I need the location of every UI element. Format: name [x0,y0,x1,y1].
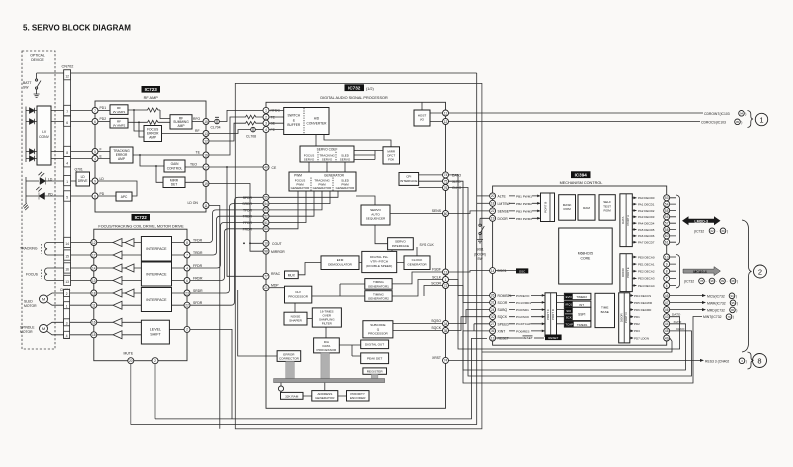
wire XRST / RES3 [449,359,701,361]
svg-text:PD1: PD1 [634,315,640,319]
svg-text:11: 11 [204,204,208,208]
svg-text:): ) [736,308,737,312]
wires CN702 to IC723 [71,111,93,197]
svg-text:19: 19 [204,182,208,186]
svg-text:XLTO: XLTO [674,320,682,324]
wire DATO wrap [449,175,680,349]
svg-text:TRACKING: TRACKING [20,247,38,251]
svg-text:TFDR: TFDR [193,239,203,243]
svg-text:35: 35 [444,329,448,333]
svg-text:MIRROR: MIRROR [271,250,285,254]
svg-text:12: 12 [204,139,208,143]
wire ALTE [477,195,490,197]
svg-text:I/V AMP2: I/V AMP2 [113,123,126,127]
block INTERFACE 3 [141,288,171,312]
svg-text:DIGITAL PLL: DIGITAL PLL [370,255,388,259]
arrowheads PB rows [537,195,540,220]
svg-text:24: 24 [491,308,495,312]
port DOOR PORT E box [620,254,632,292]
svg-text:96: 96 [731,308,735,312]
svg-text:AMP: AMP [178,124,185,128]
switch S081 DOOR SW [480,218,490,224]
svg-text:): ) [736,294,737,298]
svg-text:INT: INT [579,303,584,307]
svg-text:FFDR: FFDR [193,264,203,268]
svg-text:62: 62 [710,229,714,233]
svg-text:11: 11 [92,304,96,308]
svg-text:52: 52 [264,215,268,219]
svg-text:RESET: RESET [522,336,532,340]
svg-text:MUTE: MUTE [124,352,134,356]
svg-text:8: 8 [186,241,188,245]
IC722 box [94,229,187,361]
gray riser (register) [371,374,378,380]
svg-text:REGISTER: REGISTER [367,370,384,374]
svg-text:34: 34 [444,322,448,326]
svg-text:SERVO: SERVO [322,157,333,161]
svg-text:PD2: PD2 [634,322,640,326]
svg-text:55: 55 [264,196,268,200]
svg-text:69: 69 [721,229,725,233]
block MIRR DET [163,177,185,188]
svg-text:M: M [42,326,45,331]
block PEAK DET [361,353,389,364]
svg-text:17: 17 [204,165,208,169]
svg-text:4: 4 [94,157,96,161]
svg-text:8: 8 [66,151,68,155]
block SELF TEST ROM [599,195,615,221]
svg-text:2: 2 [66,292,68,296]
svg-text:S081: S081 [476,248,484,252]
ref circle 2 [754,265,767,278]
block SERVO COEF [300,146,354,162]
svg-text:CE: CE [272,166,277,170]
svg-text:): ) [746,359,747,363]
svg-text:PROCESSOR: PROCESSOR [288,294,309,298]
svg-text:32K RAM: 32K RAM [285,395,299,399]
svg-text:60: 60 [665,234,669,238]
block LEVEL SHIFT [141,320,169,344]
svg-text:RESET: RESET [498,337,509,341]
svg-text:SQCK: SQCK [498,315,508,319]
svg-text:LD ON: LD ON [188,201,199,205]
wires CN701 to IC722 [70,293,91,335]
IC732 right pins [443,110,449,363]
svg-text:80: 80 [444,212,448,216]
svg-text:21: 21 [264,286,268,290]
svg-text:DIGITAL OUT: DIGITAL OUT [365,343,384,347]
wire LMTSW [477,202,490,204]
svg-text:MOTOR: MOTOR [24,304,37,308]
svg-text:MOTOR: MOTOR [20,330,33,334]
block PWM GENERATOR [289,172,356,191]
svg-text:15: 15 [65,255,69,259]
svg-text:ALTE: ALTE [498,194,507,198]
svg-text:14: 14 [92,266,96,270]
svg-text:MRD(IC732: MRD(IC732 [707,308,725,312]
svg-text:RFO: RFO [193,117,201,121]
svg-text:11: 11 [444,111,448,115]
svg-text:72: 72 [444,284,448,288]
wires I-V CONV to CN702 [51,111,64,159]
svg-text:PO0/RES: PO0/RES [516,329,529,333]
svg-text:SRDR: SRDR [193,289,203,293]
svg-text:1: 1 [759,115,763,124]
wires portC to peripherals [557,295,565,323]
svg-text:PA5 DECD5: PA5 DECD5 [638,228,655,232]
arrowheads PE rows [634,256,637,287]
svg-text:PB2 PWM2: PB2 PWM2 [516,202,532,206]
ref circle 1 [755,113,767,125]
svg-text:TCAP: TCAP [565,323,573,327]
svg-text:15: 15 [204,120,208,124]
block REGISTER [363,368,387,374]
wire pin19 to COUT/MIRROR [209,184,263,252]
svg-text:RES3 3 (CN402: RES3 3 (CN402 [705,359,729,363]
data bus bar [274,379,385,383]
svg-text:(DOUBLE SPEED): (DOUBLE SPEED) [366,264,392,268]
svg-text:RF: RF [195,129,200,133]
capacitor CL704 [209,121,214,123]
svg-text:53: 53 [665,196,669,200]
svg-text:SERVO: SERVO [304,157,315,161]
svg-text:): ) [741,120,742,124]
wire LD loop [98,181,137,196]
block SWITCH & BUFFER / A/D CONVERTER [284,108,329,135]
svg-text:5: 5 [94,150,96,154]
svg-text:(IC732: (IC732 [684,280,694,284]
block CPI INTERFACE [399,173,419,186]
svg-text:2: 2 [154,359,156,363]
svg-text:MCS(IC732: MCS(IC732 [707,294,725,298]
svg-text:TFDR: TFDR [243,208,253,212]
ref circle 8 [753,354,767,368]
svg-text:XINT: XINT [498,329,506,333]
svg-text:DOOR: DOOR [621,268,625,277]
svg-text:27: 27 [491,322,495,326]
svg-text:GENERATOR2: GENERATOR2 [368,297,389,301]
node: sum junction [160,110,170,122]
svg-text:LD: LD [100,177,105,181]
svg-text:ENCODER: ENCODER [350,396,366,400]
block TCAP TIMER1 [564,321,591,327]
resistor (after AMP2) [128,120,163,124]
block HOST I/O [414,110,430,126]
svg-text:INTERFACE: INTERFACE [146,298,167,302]
wire MUTE wrap [131,424,477,426]
svg-text:PB1 PWM1: PB1 PWM1 [516,195,532,199]
svg-text:ROM: ROM [603,209,611,213]
svg-text:LEVEL: LEVEL [150,328,161,332]
block TIME BASE [595,293,615,327]
svg-text:PC2/SCK: PC2/SCK [516,315,530,319]
wire FSDF to DSC1 [449,271,490,272]
svg-text:CLKO: CLKO [452,186,462,190]
wires servo coef to pwm [309,162,345,172]
block SSPI [564,307,591,320]
PE rows [632,254,669,289]
svg-text:9: 9 [666,262,668,266]
svg-text:CL708: CL708 [246,135,256,139]
svg-text:): ) [727,229,728,233]
svg-text:4: 4 [265,128,267,132]
svg-text:-: - [727,280,728,284]
svg-text:INTERFACE: INTERFACE [400,179,417,183]
svg-text:SFDR: SFDR [193,301,203,305]
svg-text:49: 49 [665,336,669,340]
core M68HC05 [559,228,613,284]
svg-text:MECHANISM CONTROL: MECHANISM CONTROL [560,181,603,185]
wire CDROINT [449,112,704,114]
photodiode array (4 diodes) [25,107,27,163]
svg-text:F: F [100,148,102,152]
svg-text:M: M [42,297,45,302]
wire SQCK [449,317,490,331]
svg-text:PE0 DECA0: PE0 DECA0 [638,255,655,259]
svg-text:PA2 DECD2: PA2 DECD2 [638,209,655,213]
svg-text:CPI: CPI [406,175,411,179]
svg-text:20: 20 [129,359,133,363]
svg-text:95: 95 [731,301,735,305]
svg-text:14: 14 [65,242,69,246]
svg-text:SHIFT: SHIFT [150,332,161,336]
svg-text:SFDR: SFDR [243,196,253,200]
IC732 inner box [266,102,446,408]
svg-text:OPTICAL: OPTICAL [30,53,45,57]
svg-text:GENERATOR1: GENERATOR1 [368,284,389,288]
svg-text:OSC: OSC [519,269,526,273]
svg-text:EVO: EVO [566,295,573,299]
wire SE (pin12 to IC732) [209,121,263,141]
fat arrow MCA0-4 [683,267,721,276]
amp FOCUS ERROR AMP [144,126,162,142]
block 32K RAM [281,392,304,399]
svg-text:CN702: CN702 [62,65,74,69]
svg-text:57: 57 [665,222,669,226]
svg-text:IC732: IC732 [348,86,361,91]
bracket PA bus [670,195,680,245]
svg-text:DEMODULATOR: DEMODULATOR [328,263,353,267]
svg-text:PD6 DECRD: PD6 DECRD [634,308,652,312]
wire MDP to CLV [269,287,285,289]
svg-text:PEAK DET: PEAK DET [367,357,382,361]
svg-text:Q701: Q701 [75,168,83,172]
IC723 label [142,86,161,93]
svg-text:PD3: PD3 [634,329,640,333]
wire CLKO wrap [449,188,692,377]
svg-text:4: 4 [66,334,68,338]
PA rows [632,195,669,245]
svg-text:5: 5 [66,196,68,200]
block 16-TIMES OVER SAMPLING FILTER [312,308,341,327]
svg-text:36: 36 [491,329,495,333]
svg-text:TEO: TEO [190,163,197,167]
block NOISE SHAPER [284,312,307,325]
svg-text:30: 30 [491,315,495,319]
svg-text:DSC1: DSC1 [498,269,507,273]
pin below bus [280,383,282,386]
wire RFO [192,121,203,123]
svg-text:8: 8 [94,194,96,198]
IC394 box [493,186,667,345]
arrowheads PA rows [634,196,637,243]
svg-text:INTERFACE: INTERFACE [146,247,167,251]
svg-text:M68HC05: M68HC05 [578,252,593,256]
svg-text:2: 2 [186,328,188,332]
wire SCLK to ROMSEL [449,280,490,296]
svg-text:SRDR: SRDR [242,202,252,206]
svg-text:RF AMP: RF AMP [144,96,159,100]
oscillator OSC [516,268,528,273]
svg-text:12: 12 [92,241,96,245]
svg-text:7: 7 [94,109,96,113]
block SUBCODE Q PROCESSOR [363,321,393,338]
svg-text:ROMSEL: ROMSEL [498,294,512,298]
svg-text:(1/2): (1/2) [366,87,375,91]
svg-text:BUFFER: BUFFER [287,123,300,127]
svg-text:PA0 DECD0: PA0 DECD0 [638,196,655,200]
wires pwm to drive pins [269,191,338,229]
svg-text:16: 16 [92,321,96,325]
svg-text:GENERATOR: GENERATOR [291,186,311,190]
block RAM [578,195,595,221]
svg-text:61: 61 [665,241,669,245]
svg-text:CORE: CORE [581,257,592,261]
svg-text:8: 8 [666,270,668,274]
svg-text:3: 3 [265,122,267,126]
svg-text:14: 14 [491,269,495,273]
svg-text:PROCESSOR: PROCESSOR [368,332,389,336]
svg-text:LMTSW: LMTSW [498,202,511,206]
svg-text:1: 1 [66,180,68,184]
svg-text:16: 16 [204,153,208,157]
svg-text:GENERATOR: GENERATOR [336,186,356,190]
wire LDON wrap [482,338,672,352]
svg-text:PE3 DECA3: PE3 DECA3 [638,277,655,281]
wire SQSO to SUBQ [449,310,490,324]
svg-text:10: 10 [665,255,669,259]
wire MCS [670,295,702,297]
svg-text:PD2: PD2 [100,117,107,121]
wire RESET wrap [155,338,487,419]
svg-text:SENSE: SENSE [498,209,510,213]
svg-text:48: 48 [665,329,669,333]
svg-text:SCOR: SCOR [431,281,441,285]
svg-text:PE1 DECA1: PE1 DECA1 [638,262,655,266]
svg-text:SERVO COEF: SERVO COEF [317,148,338,152]
svg-text:TE: TE [196,151,201,155]
wire TE out [133,154,203,156]
svg-text:26: 26 [491,294,495,298]
svg-text:46: 46 [665,308,669,312]
svg-text:SCOR: SCOR [498,301,508,305]
wire LD ON [209,206,220,429]
block DIGITAL PLL [362,251,397,272]
wire MRD [670,309,702,311]
wire MWR [670,302,702,304]
port DATA PORT A box [620,194,632,247]
svg-text:DOOR: DOOR [498,217,509,221]
svg-text:18: 18 [491,202,495,206]
svg-text:98: 98 [264,250,268,254]
svg-text:PORT E: PORT E [626,267,630,278]
svg-text:FFDR: FFDR [243,221,253,225]
block CLOCK GENERATOR [404,256,430,270]
svg-text:DATO: DATO [672,313,681,317]
svg-text:7: 7 [186,253,188,257]
svg-text:DEVICE: DEVICE [31,58,44,62]
svg-text:SWITCH: SWITCH [288,114,301,118]
svg-text:PE4 DECA4: PE4 DECA4 [638,284,655,288]
ground (optical) [23,200,29,211]
svg-text:54: 54 [665,202,669,206]
svg-text:FE: FE [271,128,276,132]
svg-text:47: 47 [665,301,669,305]
svg-text:CONV: CONV [39,135,50,139]
svg-text:IRQ1: IRQ1 [565,303,572,307]
svg-text:SPEED: SPEED [498,322,510,326]
svg-text:08: 08 [731,279,735,283]
svg-text:51: 51 [264,221,268,225]
amp RF I/V AMP2 [110,118,128,128]
svg-text:PA3 DECD3: PA3 DECD3 [638,215,655,219]
svg-text:6: 6 [666,284,668,288]
svg-text:3: 3 [66,322,68,326]
svg-text:AMP: AMP [118,157,125,161]
wire mute wrap [130,364,132,425]
svg-text:SCK: SCK [566,316,572,320]
svg-text:99: 99 [721,279,725,283]
svg-text:4: 4 [186,266,188,270]
I-V converter box [37,106,51,165]
svg-text:PC3/TCAP: PC3/TCAP [516,322,531,326]
svg-text:PORT D: PORT D [624,312,628,323]
IC723 box [95,101,206,212]
svg-text:PA4 DECD4: PA4 DECD4 [638,222,655,226]
svg-text:HOST: HOST [418,113,427,117]
svg-text:ROM: ROM [563,207,571,211]
svg-text:TRDR: TRDR [243,215,253,219]
svg-text:1: 1 [265,109,267,113]
svg-text:-: - [717,229,718,233]
svg-text:2: 2 [758,268,762,277]
svg-text:54: 54 [264,202,268,206]
block TIMING GENERATOR1 [365,279,392,290]
svg-text:13: 13 [65,280,69,284]
svg-text:FOCUS/TRACKING COIL DRIVE, MOT: FOCUS/TRACKING COIL DRIVE, MOTOR DRIVE [98,224,184,228]
block MASK ROM [559,195,576,221]
IC732 left pins [263,107,269,290]
svg-text:I/O: I/O [420,118,425,122]
brace 1 [748,111,754,128]
svg-text:COUT: COUT [272,242,282,246]
block ADDRESS GENERATOR [312,391,338,401]
svg-text:APC: APC [121,195,128,199]
svg-text:SQCK: SQCK [431,326,441,330]
svg-text:PB3 PWM3: PB3 PWM3 [516,210,532,214]
svg-text:18: 18 [92,291,96,295]
svg-text:PA7 DECD7: PA7 DECD7 [638,241,655,245]
svg-text:IC394: IC394 [575,173,588,178]
IC732 label [345,84,365,91]
svg-text:94: 94 [730,294,734,298]
block DIGITAL OUT [361,340,389,349]
svg-text:40: 40 [264,166,268,170]
wire XINT / MINT [463,317,702,384]
port B box [541,193,555,222]
svg-text:FSDF: FSDF [432,267,441,271]
block INTERFACE 2 [141,262,171,286]
